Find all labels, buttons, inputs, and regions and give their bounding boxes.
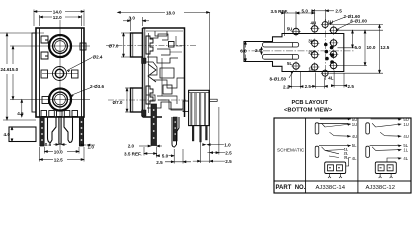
svg-text:15.0: 15.0 [9, 67, 18, 72]
svg-text:PCB LAYOUT: PCB LAYOUT [292, 100, 329, 106]
pcb bottom dims [289, 71, 347, 89]
center pin leg [59, 117, 61, 144]
svg-text:4.0: 4.0 [4, 132, 11, 137]
centerline J1 horizontal [30, 45, 90, 47]
svg-text:AJ338C-12: AJ338C-12 [366, 185, 395, 191]
pin slot 3 [57, 111, 63, 117]
svg-text:0.6: 0.6 [45, 142, 52, 147]
dim 15.0 [10, 46, 30, 100]
rear pin 1 [192, 126, 194, 141]
switch arm 4U c2 [380, 132, 401, 136]
internal contact castellation lower [146, 86, 153, 104]
svg-text:4U: 4U [403, 134, 408, 139]
mount tab bottom-left [9, 127, 36, 142]
dim 2.5 mid side [165, 149, 191, 164]
dim 1.0 rear [203, 144, 224, 146]
svg-text:3.5 REF.: 3.5 REF. [271, 9, 289, 14]
schematic cell 1 (AJ338C-14) [315, 118, 351, 178]
svg-text:14.0: 14.0 [53, 9, 62, 14]
interior small box mid [163, 85, 172, 94]
centerline J2 horizontal [30, 99, 90, 101]
interior right lines [170, 36, 182, 52]
dim 2.5 rear upper [207, 107, 225, 155]
dim 10.0 [45, 147, 80, 154]
svg-text:2.5: 2.5 [335, 8, 342, 13]
internal contact castellation upper [146, 36, 153, 54]
switch contact mid c1 [322, 147, 345, 158]
body interior verticals [149, 33, 163, 113]
svg-text:2.5: 2.5 [156, 160, 163, 165]
dim dia7.0 lower [125, 88, 131, 112]
svg-text:5U: 5U [287, 27, 293, 32]
jack J1 inner ring [55, 41, 66, 52]
jack J2 inner ring [55, 94, 66, 105]
svg-text:4.5: 4.5 [17, 111, 24, 116]
svg-text:1L: 1L [309, 67, 314, 72]
svg-text:5.0: 5.0 [355, 45, 362, 50]
leader 2-dia3.6 [71, 88, 92, 98]
switch arm 4U c1 [330, 132, 351, 136]
shield leg left (hatched) [40, 117, 44, 146]
left flange strip [32, 33, 36, 112]
centerline vertical front view [59, 20, 61, 151]
hole 4U [310, 24, 319, 33]
wire 4L c1 [346, 158, 351, 167]
inner wall line right [81, 28, 83, 117]
pcb slot bar upper [263, 43, 299, 48]
svg-text:4L: 4L [328, 75, 333, 80]
dim 4.5 [21, 100, 23, 118]
small side lug [183, 101, 189, 112]
svg-text:5L: 5L [352, 143, 357, 148]
small holes 1.0 [324, 43, 334, 64]
svg-text:AJ338C-14: AJ338C-14 [316, 185, 346, 191]
hook pin hatch [173, 117, 177, 141]
hook prong left [48, 117, 57, 143]
plate clip upper [142, 58, 147, 64]
hole 3U [310, 39, 319, 48]
jack J2 middle ring [53, 92, 68, 107]
wire 4L c2 [387, 158, 401, 162]
box pins c1 [328, 174, 342, 179]
svg-text:1L: 1L [403, 148, 408, 153]
interior detail steps [153, 78, 184, 104]
svg-text:18.0: 18.0 [166, 10, 175, 15]
contact sleeve lower c2 [366, 146, 370, 157]
leader dia 2.4 [67, 58, 92, 73]
svg-text:1U: 1U [352, 122, 357, 127]
interior lower step [146, 95, 183, 109]
latch window mid-left [41, 52, 48, 59]
hole 5L [291, 61, 300, 70]
svg-text:Ø2.4: Ø2.4 [93, 55, 103, 60]
hole right col 1 [329, 26, 338, 35]
center hole 2.4 [55, 69, 63, 77]
interior notch top [155, 31, 167, 36]
svg-text:2-Ø3.6: 2-Ø3.6 [90, 84, 104, 89]
dim 14.0 [34, 10, 84, 27]
hole right col 3 [329, 50, 338, 59]
svg-text:3.0: 3.0 [129, 15, 136, 20]
keyway left of J2 [42, 97, 49, 104]
center hole ring [53, 67, 67, 81]
hole 1L [310, 62, 319, 71]
leader 8-dia1.50 [289, 71, 294, 79]
spring contact middle [148, 64, 174, 82]
dim 2.0 tongue [261, 47, 263, 55]
pcb footprint outline (stepped) [244, 34, 344, 72]
contact sleeve upper c1 [315, 123, 319, 134]
svg-text:Ø7.0: Ø7.0 [109, 43, 119, 48]
hole 5U [291, 27, 300, 36]
contact sleeve upper c2 [366, 123, 370, 134]
dim 12.5 [40, 147, 85, 162]
latch window upper-left [41, 36, 48, 43]
svg-text:2.5: 2.5 [348, 84, 355, 89]
rear tab [209, 99, 217, 101]
rear pin 3 [206, 126, 208, 140]
svg-text:12.0: 12.0 [53, 15, 62, 20]
dim 18.0 [118, 11, 210, 163]
svg-text:<BOTTOM VIEW>: <BOTTOM VIEW> [284, 108, 333, 114]
centerline bushing2 [108, 99, 186, 101]
table divider horizontal [274, 180, 411, 182]
interior detail upper shelf [150, 34, 168, 40]
contact sleeve lower c1 [315, 146, 319, 157]
dim 5.0 side [157, 149, 175, 158]
table outer border [274, 118, 411, 193]
hole right col 2 [329, 38, 338, 47]
pcb top dims [282, 9, 335, 36]
wire 5L c1 [319, 144, 351, 146]
side hole on centerline [169, 42, 175, 48]
svg-text:2.5: 2.5 [225, 151, 232, 156]
rear pin block [189, 90, 209, 125]
inner contact ledge upper [147, 57, 178, 63]
hole right col 4 [329, 61, 338, 70]
svg-text:2.5: 2.5 [225, 159, 232, 164]
pin slot 2 [49, 111, 55, 117]
dc jack box c2 [375, 162, 396, 174]
jack J1 middle ring [53, 39, 68, 54]
dim 4.0 tab [11, 127, 13, 142]
svg-text:2U: 2U [308, 50, 314, 55]
pin slot 4 [64, 111, 70, 117]
schematic cell 2 (AJ338C-12) [366, 118, 402, 178]
hook prong right [64, 117, 73, 143]
switch contact 1U c2 [372, 123, 401, 127]
svg-text:3U: 3U [308, 38, 314, 43]
svg-text:4U: 4U [311, 21, 317, 26]
pcb slot bar lower [263, 55, 299, 60]
right side dims [330, 25, 384, 74]
bushing lower [131, 88, 143, 112]
svg-text:10.0: 10.0 [367, 45, 376, 50]
dim 1.0 right [81, 144, 95, 146]
svg-text:12.5: 12.5 [54, 157, 63, 162]
dim 24.6 [0, 33, 44, 120]
jack opening circle J1 outer [49, 35, 71, 57]
dim 2.0 side [139, 145, 162, 147]
bushing upper [131, 33, 143, 57]
svg-text:PART NO.: PART NO. [276, 185, 306, 191]
side window left of hole [41, 70, 48, 78]
svg-text:6.0: 6.0 [240, 49, 247, 54]
centerline bushing1 [106, 44, 196, 46]
right side tab [80, 43, 86, 50]
wire 5U c2 [371, 118, 402, 120]
dim 6.0 tongue [245, 42, 247, 62]
box pins c2 [379, 174, 393, 179]
inner ledge lower [147, 102, 182, 110]
dim 2.5 rear lower [193, 142, 225, 163]
svg-text:2.2: 2.2 [283, 84, 290, 89]
dim 12.0 [40, 15, 82, 26]
table divider vertical 2 [357, 118, 359, 193]
pin slot 5 [72, 111, 78, 117]
interior hook mid [146, 49, 170, 75]
pin slot 1 [41, 111, 47, 117]
big hole 1.6 top [321, 20, 329, 28]
front view body outline [36, 28, 84, 117]
svg-text:2.5: 2.5 [305, 84, 312, 89]
switch contact 1U c1 [322, 123, 351, 127]
svg-text:1.0: 1.0 [88, 145, 95, 150]
svg-text:5.0: 5.0 [302, 8, 309, 13]
jack opening circle J2 outer [49, 89, 71, 111]
shield leg right (hatched) [79, 117, 83, 146]
dim 3.5 REF [144, 147, 157, 156]
wire 5U c1 [319, 123, 351, 126]
svg-text:1U: 1U [403, 122, 408, 127]
side body outline [143, 28, 185, 117]
dim 0.6 [54, 144, 67, 146]
plate clip lower [142, 110, 147, 116]
svg-text:3.5 REF.: 3.5 REF. [124, 151, 142, 156]
svg-text:2.0: 2.0 [255, 48, 262, 53]
centerline hole horizontal [42, 73, 78, 75]
wire 5L c2 [370, 144, 402, 146]
inner wall line left [39, 28, 41, 117]
dim dia7.0 upper [121, 33, 131, 57]
svg-text:12.5: 12.5 [380, 45, 389, 50]
svg-text:5.0: 5.0 [162, 154, 169, 159]
table divider vertical 1 [305, 118, 307, 193]
dim 3.0 [123, 17, 149, 31]
svg-text:1.0: 1.0 [224, 143, 231, 148]
svg-text:4L: 4L [403, 156, 408, 161]
hole 2U [310, 50, 319, 59]
svg-text:4L: 4L [352, 156, 357, 161]
switch contact 1L c2 [372, 147, 401, 151]
leader 6-dia1.00 [336, 22, 352, 31]
side hook pin [172, 117, 179, 147]
leader 2-dia1.60 [329, 18, 344, 25]
dc jack box c1 [325, 162, 346, 174]
pcb centerline vertical [325, 19, 327, 80]
svg-text:10.0: 10.0 [54, 149, 63, 154]
svg-text:2.0: 2.0 [128, 143, 135, 148]
inner top line [146, 30, 183, 32]
svg-text:Ø7.0: Ø7.0 [113, 100, 123, 105]
svg-text:8-Ø1.50: 8-Ø1.50 [270, 76, 287, 81]
front plate [142, 28, 144, 117]
big hole 1.6 bottom [321, 69, 329, 77]
svg-text:6-Ø1.00: 6-Ø1.00 [350, 18, 367, 23]
svg-text:4U: 4U [352, 134, 357, 139]
side leg hatched [151, 104, 157, 146]
side window right of hole [72, 70, 79, 78]
rear pin 2 [200, 126, 202, 142]
svg-text:5L: 5L [287, 61, 292, 66]
pcb centerline horizontal [240, 50, 354, 52]
svg-text:SCHEMATIC: SCHEMATIC [277, 147, 305, 152]
